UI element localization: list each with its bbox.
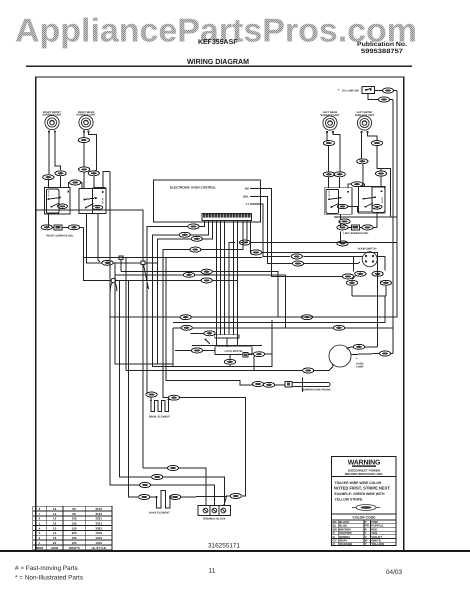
connector pin1	[188, 224, 199, 229]
svg-text:TERMINAL BLOCK: TERMINAL BLOCK	[202, 517, 225, 520]
svg-text:105: 105	[72, 541, 77, 545]
svg-text:3321: 3321	[95, 517, 102, 521]
connector left ind left	[337, 225, 348, 230]
part number 316255171	[208, 543, 240, 550]
connector left ind plug	[351, 225, 359, 230]
switch LF innards	[363, 190, 384, 209]
connector lock row right	[333, 325, 344, 330]
connector lamp right	[379, 351, 390, 356]
switch LR inner module	[326, 189, 339, 213]
switch box right-front surface SW	[45, 187, 70, 214]
connector mid bus D	[201, 269, 212, 274]
coil LR pins	[326, 131, 334, 133]
connector probe B	[263, 382, 274, 387]
coil RF pins	[48, 130, 56, 132]
title WIRING DIAGRAM	[187, 57, 249, 66]
title underline rule	[26, 65, 412, 67]
EOC terminal strip cells	[203, 214, 250, 217]
color code table text	[333, 520, 385, 546]
connector above lock	[190, 331, 215, 336]
svg-text:5: 5	[39, 522, 41, 526]
connector door right lower	[380, 280, 391, 285]
svg-text:OV LAMP SW: OV LAMP SW	[342, 90, 359, 93]
connector mid bus C	[201, 278, 212, 283]
wire coil LF left pin chain	[362, 133, 364, 187]
lock aux box	[243, 353, 248, 357]
switch box right-rear surface SW	[79, 188, 106, 213]
EOC label	[170, 186, 216, 190]
svg-text:14: 14	[53, 517, 57, 521]
svg-text:105: 105	[72, 517, 77, 521]
connector on BK wire	[291, 254, 302, 259]
switch RR inner module	[92, 188, 106, 214]
wire bake row left	[150, 496, 152, 498]
svg-text:YELLOW STRIPE.: YELLOW STRIPE.	[335, 497, 364, 501]
switch box left-rear surface SW	[324, 188, 352, 215]
svg-text:105: 105	[72, 536, 77, 540]
connector pin2	[179, 232, 190, 237]
wire mid bus D	[121, 272, 278, 318]
wire right ind drop B	[87, 213, 102, 262]
wire door sw left leg	[352, 256, 362, 296]
EOC pin BK lead	[250, 187, 256, 189]
svg-text:SURFACE UNIT: SURFACE UNIT	[355, 114, 375, 117]
wire mid bus C	[116, 279, 238, 281]
lock section enclosure	[173, 320, 272, 367]
coil LF pins	[360, 131, 368, 133]
electronic oven control box U1	[154, 180, 261, 222]
svg-text:BK/W: BK/W	[102, 197, 105, 204]
wire strip pin 7 down to lock	[224, 221, 226, 335]
connector indicator plug	[54, 225, 62, 230]
wire coil LR left pin to switch	[327, 133, 329, 188]
wire coil LF right pin chain	[368, 133, 391, 217]
svg-text:BK/W: BK/W	[381, 196, 384, 203]
connector bottom rail mid	[152, 475, 163, 480]
connector mid bus E	[183, 272, 194, 277]
warning subtitle	[345, 469, 383, 477]
wire strip pin 9 down to lock box	[237, 221, 239, 346]
svg-text:90: 90	[72, 512, 76, 516]
wire bottom rail mid	[163, 477, 225, 506]
connector door left upper	[355, 271, 366, 276]
wire strip pin 16 bus	[251, 221, 378, 347]
connector on lamp-lock wire	[303, 368, 314, 373]
svg-text:3: 3	[39, 531, 41, 535]
connector lamp top	[353, 344, 364, 349]
label broil element	[149, 415, 171, 418]
svg-text:# = Fast-moving Parts: # = Fast-moving Parts	[15, 565, 78, 572]
wire mid bus E	[115, 275, 286, 328]
svg-text:YELLOW: YELLOW	[371, 542, 384, 546]
connector left ind drop	[337, 241, 348, 246]
connector on L1 wire	[342, 274, 353, 279]
svg-text:1015: 1015	[95, 541, 102, 545]
svg-text:2: 2	[39, 536, 41, 540]
svg-text:11: 11	[209, 568, 216, 575]
surface unit coil right-front	[45, 115, 59, 129]
page number 11	[209, 568, 216, 575]
connector to lamp switch	[382, 88, 393, 93]
wire probe feed	[166, 258, 252, 385]
warning body text	[334, 481, 391, 502]
svg-text:150: 150	[72, 526, 77, 530]
right bus wire lower	[392, 100, 394, 354]
connector probe A	[252, 382, 263, 387]
wire mid bus A	[84, 257, 262, 259]
connector on RR right wire	[88, 171, 99, 176]
switch RF innards	[47, 190, 69, 209]
connector pin4	[190, 247, 201, 252]
label left rear surface unit	[320, 111, 340, 117]
label right front surface unit	[42, 111, 62, 117]
svg-text:BK: BK	[245, 186, 249, 190]
EOC pin label BRL	[243, 194, 249, 198]
terminal block TB1	[198, 506, 231, 516]
date 04/03	[386, 569, 402, 576]
svg-text:LAMP: LAMP	[356, 366, 364, 369]
diagram border frame	[36, 77, 404, 551]
color code table grid	[332, 520, 396, 546]
wire coil LR right pin to switch	[333, 133, 340, 188]
connector indicator right	[68, 225, 79, 230]
svg-text:16: 16	[53, 536, 57, 540]
connector under coil LF right	[371, 141, 382, 146]
label left front surface unit	[355, 111, 375, 117]
switch box left-front surface SW	[359, 187, 386, 214]
svg-text:*: *	[338, 89, 340, 93]
svg-text:16: 16	[53, 522, 57, 526]
svg-text:1015: 1015	[95, 536, 102, 540]
svg-text:3133: 3133	[95, 507, 102, 511]
svg-text:1: 1	[39, 541, 41, 545]
connector bottom rail top	[167, 466, 178, 471]
connector bottom rail low	[139, 483, 150, 488]
wire LF box drop	[380, 169, 382, 187]
footer fast-moving parts note	[15, 565, 83, 582]
EOC terminal strip	[202, 214, 252, 221]
switch RR innards	[83, 191, 104, 210]
right bus wire from lamp switch	[110, 91, 397, 318]
wire strip pin 2 left jog	[153, 221, 209, 367]
svg-text:TEMPERATURE PROBE: TEMPERATURE PROBE	[301, 389, 331, 392]
svg-text:SURFACE UNIT: SURFACE UNIT	[42, 114, 62, 117]
warning example connector	[352, 505, 380, 511]
wire bake row right	[170, 468, 246, 506]
wire EOC pin L1 right	[256, 204, 354, 257]
connector LF box drop	[375, 171, 386, 176]
jumper between LR and LF switches	[348, 184, 364, 188]
svg-text:14: 14	[53, 531, 57, 535]
wire right boxes lower bus	[334, 216, 397, 218]
svg-text:WIRING DIAGRAM: WIRING DIAGRAM	[187, 57, 249, 66]
svg-text:LEFT SURFACE IND.: LEFT SURFACE IND.	[343, 232, 369, 235]
switch LF inner module	[372, 187, 385, 213]
wire left drop C	[120, 281, 152, 478]
wire bottom rail low	[151, 485, 215, 506]
bottom page rule	[0, 550, 470, 552]
probe plug body	[275, 381, 292, 387]
svg-text:3321: 3321	[95, 522, 102, 526]
wire strip pin 4 left long	[163, 221, 243, 398]
label temperature probe	[301, 389, 331, 392]
label left surface ind	[343, 232, 369, 235]
connector lock upper row	[181, 325, 192, 330]
indicator lamp IL1	[110, 278, 117, 291]
connector pin3	[191, 236, 202, 241]
terminal block dividers	[210, 506, 219, 516]
lock cam bar	[215, 335, 239, 347]
svg-text:7: 7	[39, 512, 41, 516]
wire LR switch bottom to ind row	[340, 214, 342, 227]
EOC pin label L1	[246, 202, 250, 206]
svg-text:TEMP°C: TEMP°C	[68, 546, 81, 550]
connector under LR switch	[339, 219, 350, 224]
wire coil RR left pin chain	[83, 133, 85, 189]
terminal block screws	[203, 508, 226, 513]
connector left ind right	[362, 225, 373, 230]
wire strip pin 6 straight down	[220, 221, 222, 335]
warning title	[348, 460, 381, 467]
svg-text:UL STYLE: UL STYLE	[91, 546, 105, 550]
wire left drop D	[125, 258, 127, 371]
oven lamp switch label	[338, 89, 359, 93]
lock switch arm	[205, 339, 210, 344]
svg-text:BAKE ELEMENT: BAKE ELEMENT	[149, 511, 170, 514]
connector door left lower	[346, 280, 357, 285]
wire lamp switch lower leg	[368, 93, 393, 99]
connector on pin15 bus	[239, 240, 250, 245]
wire lamp top connector	[348, 346, 377, 349]
connector door right upper	[372, 271, 383, 276]
svg-text:ORANGE: ORANGE	[339, 542, 352, 546]
lock switch row wire	[192, 344, 262, 346]
connector on BRL wire	[292, 261, 303, 266]
svg-text:316255171: 316255171	[208, 543, 240, 550]
svg-text:COLOR CODE: COLOR CODE	[353, 516, 377, 520]
svg-text:ELECTRONIC OVEN CONTROL: ELECTRONIC OVEN CONTROL	[170, 186, 216, 190]
wire gauge table text	[36, 507, 106, 550]
connector terminal feed	[230, 494, 241, 499]
connector mid bus B	[102, 260, 113, 265]
connector below lamp switch	[378, 97, 389, 102]
svg-text:BK/W: BK/W	[328, 190, 331, 197]
label terminal block	[202, 517, 225, 520]
wire bottom rail top	[143, 468, 206, 506]
lock motor label	[225, 350, 243, 353]
svg-text:20: 20	[53, 541, 57, 545]
connector on top bus right	[301, 315, 312, 320]
oven lamp switch SW1	[362, 86, 374, 93]
connector on RR left wire	[79, 167, 90, 172]
svg-text:NOTED FIRST, STRIPE NEXT.: NOTED FIRST, STRIPE NEXT.	[334, 486, 391, 491]
svg-text:10: 10	[53, 526, 57, 530]
connector under coil RR	[78, 138, 89, 143]
connector bake left	[139, 495, 150, 500]
svg-text:TRACER WIRE WIRE COLOR: TRACER WIRE WIRE COLOR	[335, 481, 382, 485]
surface unit coil left-front	[357, 116, 371, 130]
svg-text:90: 90	[72, 507, 76, 511]
svg-text:L1: L1	[246, 202, 250, 206]
wire EOC pin BK to right bus	[256, 188, 342, 276]
svg-text:BK/W: BK/W	[48, 190, 51, 197]
door switch label	[358, 248, 377, 251]
connector LR box drop right	[334, 172, 345, 177]
svg-text:WIRE: WIRE	[36, 546, 44, 550]
wire lamp feed	[173, 296, 386, 322]
wire bottom rail top	[128, 281, 138, 498]
oven cavity left wire	[142, 265, 144, 468]
coil RR pins	[83, 130, 90, 132]
EOC pin label BK	[245, 186, 249, 190]
wire indicator row jumpers	[52, 226, 83, 228]
label right surface ind	[46, 234, 73, 237]
lock motor M1	[215, 347, 252, 355]
connector under coil LF left	[357, 159, 368, 164]
wire coil RF left pin to switch	[47, 133, 50, 188]
connector on RF left wire	[43, 175, 54, 180]
svg-text:200: 200	[72, 531, 77, 535]
oven lamp E1	[329, 345, 351, 367]
oven lamp label	[356, 357, 364, 369]
wire strip pin 3 left jog	[158, 221, 213, 365]
wire strip pin 8 down to lock cam	[233, 221, 235, 335]
connector LR box drop left	[323, 172, 334, 177]
label bake element	[149, 511, 170, 514]
publication number text	[357, 41, 407, 55]
connector broil right	[168, 395, 179, 400]
svg-text:RIGHT SURFACE IND.: RIGHT SURFACE IND.	[46, 234, 73, 237]
svg-text:5995388757: 5995388757	[361, 48, 404, 55]
watermark AppliancePartsPros.com	[15, 12, 417, 49]
door switch plug P1	[362, 252, 377, 267]
svg-text:105: 105	[72, 522, 77, 526]
svg-text:04/03: 04/03	[386, 569, 402, 576]
wire left ind drop	[340, 232, 342, 243]
connector indicator left	[41, 225, 52, 230]
connector broil left	[146, 392, 157, 400]
wire gauge table	[33, 506, 112, 550]
connector bake right	[170, 495, 181, 500]
EOC pin L1 lead	[250, 203, 256, 205]
svg-text:1015: 1015	[95, 531, 102, 535]
connector under coil LR	[323, 141, 334, 146]
svg-text:BEFORE SERVICING UNIT.: BEFORE SERVICING UNIT.	[345, 472, 383, 476]
label right rear surface unit	[76, 111, 96, 117]
wire right ind drop A	[84, 227, 112, 280]
wire RF switch bottom to indicator row	[47, 214, 49, 227]
wire LR-LF switch link	[348, 207, 373, 212]
jumper between RF and RR switches	[68, 183, 82, 189]
svg-text:14: 14	[53, 512, 57, 516]
svg-text:SURFACE UNIT: SURFACE UNIT	[76, 114, 96, 117]
svg-text:3133: 3133	[95, 512, 102, 516]
switch RF inner module	[46, 189, 59, 213]
wire coil RR right pin to switch	[89, 133, 97, 189]
wire left drop A	[103, 172, 140, 486]
wire EOC pin BRL to door	[256, 196, 360, 263]
svg-text:AWG: AWG	[51, 546, 59, 550]
svg-text:LOCK MOTOR: LOCK MOTOR	[225, 350, 243, 353]
svg-text:8: 8	[39, 507, 41, 511]
wire door sw right leg	[377, 256, 386, 296]
svg-text:BRL: BRL	[243, 194, 249, 198]
junction node A	[119, 256, 123, 272]
connector on RF right wire	[55, 171, 66, 176]
probe crossbar	[302, 378, 304, 393]
svg-text:SURFACE UNIT: SURFACE UNIT	[320, 114, 340, 117]
wire strip pin 1 left jog	[147, 221, 205, 393]
connector on LR-LF jumper	[351, 182, 362, 187]
svg-text:6: 6	[39, 517, 41, 521]
wire strip pin 15 bus	[229, 221, 397, 334]
svg-text:KEF355ASF: KEF355ASF	[198, 39, 238, 46]
wire chassis bus across switch boxes	[36, 210, 143, 261]
svg-text:4: 4	[39, 526, 41, 530]
connector on pin16 bus	[250, 250, 261, 255]
wire left ind jumpers	[348, 213, 377, 227]
svg-text:EXAMPLE: GREEN WIRE WITH: EXAMPLE: GREEN WIRE WITH	[335, 492, 385, 496]
model number text	[198, 39, 238, 46]
wire coil RF right pin to switch	[55, 133, 61, 188]
wire lamp right connector	[351, 354, 393, 355]
probe shaft	[292, 382, 330, 386]
wire broil right to cavity right	[180, 398, 246, 468]
connector lock below	[224, 354, 235, 366]
connector lock right	[248, 352, 272, 357]
surface unit coil left-rear	[323, 116, 337, 130]
connector on top bus	[180, 315, 191, 320]
svg-text:*: *	[356, 357, 358, 361]
wire strip pin 5 straight down	[216, 221, 218, 346]
color code table header	[353, 516, 377, 520]
wire lamp left to lock	[126, 356, 333, 370]
svg-text:12: 12	[53, 507, 57, 511]
EOC pin BRL lead	[250, 195, 256, 197]
wire lamp switch to right bus	[374, 90, 397, 92]
warning box	[332, 457, 396, 546]
bake element HE2	[152, 491, 175, 509]
svg-text:BROIL ELEMENT: BROIL ELEMENT	[149, 415, 171, 418]
wire mid bus B	[113, 262, 157, 264]
svg-text:* = Non-Illustrated Parts: * = Non-Illustrated Parts	[15, 575, 83, 582]
wire left drop B	[115, 263, 158, 364]
switch LR innards	[328, 190, 349, 209]
surface unit coil right-rear	[79, 115, 93, 129]
svg-text:DOOR SWITCH: DOOR SWITCH	[358, 248, 377, 251]
svg-text:3381: 3381	[95, 526, 102, 530]
junction node B	[141, 261, 148, 289]
broil element HE1	[150, 399, 169, 412]
connector lock left	[175, 348, 215, 353]
svg-text:Y: Y	[365, 542, 367, 546]
connector on jumper	[70, 180, 81, 185]
wire lock upper row	[173, 327, 393, 329]
